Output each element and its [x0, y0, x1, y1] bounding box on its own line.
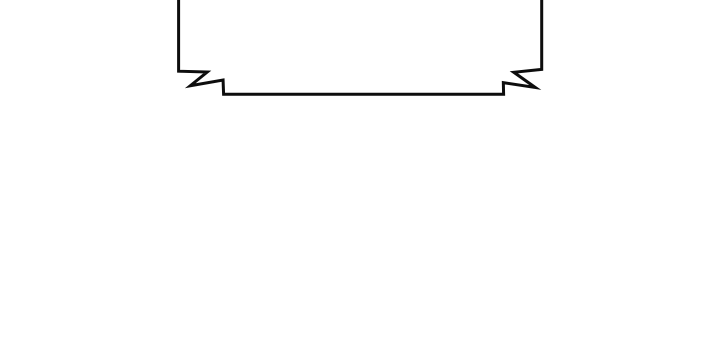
speech bubble outline	[179, 0, 542, 94]
